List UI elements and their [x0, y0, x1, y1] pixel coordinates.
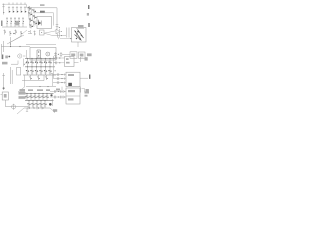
- ground GND1: [26, 108, 28, 111]
- wire top net: [27, 4, 58, 23]
- lamp DS1: [46, 52, 50, 56]
- label blob row2: [15, 21, 18, 26]
- wire vert x10: [10, 37, 11, 47]
- transistor Q34: [41, 93, 44, 101]
- wire bus row2 bottom: [2, 26, 27, 28]
- resistor R1: [6, 17, 8, 27]
- node n2: [8, 56, 10, 58]
- label net2: [40, 11, 45, 13]
- transistor Q35: [45, 93, 48, 101]
- label delta: [5, 56, 8, 59]
- transistor Q43: [39, 100, 42, 108]
- label 5R: [87, 53, 92, 56]
- capacitor C1: [56, 23, 60, 30]
- capacitor C4: [60, 52, 62, 57]
- transistor Q12: [35, 58, 38, 67]
- transistor Q11: [30, 58, 33, 67]
- capacitor C5: [2, 73, 5, 90]
- label O:: [20, 89, 26, 92]
- transistor Q40: [27, 100, 30, 108]
- label net1: [40, 4, 45, 6]
- transistor Q2: [32, 9, 36, 13]
- diode D12: [15, 30, 17, 35]
- box U6: [65, 57, 75, 67]
- box U2: [30, 48, 56, 61]
- lamp DS3: [12, 104, 16, 110]
- label 1 (right of J1): [88, 23, 89, 27]
- transistor Q7: [38, 20, 41, 26]
- transistor Q7: [29, 24, 33, 28]
- label 1 (right of U7): [89, 75, 90, 79]
- lamp DS2: [18, 54, 26, 58]
- wire bus B1: [25, 93, 54, 95]
- wire right of U6: [74, 62, 79, 64]
- transistor Q24: [44, 66, 47, 75]
- label 1 row2: [1, 21, 2, 27]
- resistor R4: [18, 17, 20, 27]
- label 1 (top right): [88, 5, 89, 9]
- diode D5: [20, 3, 22, 14]
- wire right of U7: [80, 77, 88, 79]
- diode D11: [9, 31, 11, 36]
- wire L to phi: [5, 100, 28, 107]
- wire y54: [62, 53, 70, 55]
- wire y80.5: [22, 75, 44, 81]
- blob in U7: [68, 83, 72, 86]
- wire left drop br: [51, 99, 53, 106]
- transistor Q25: [48, 66, 51, 75]
- diode D6: [24, 3, 26, 14]
- transistor Q33: [37, 93, 40, 101]
- wire horizontal y46: [1, 46, 30, 47]
- transistor Q30: [25, 93, 28, 101]
- transistor Q31: [29, 93, 32, 101]
- diode D20 arrow: [56, 29, 62, 34]
- node n3: [13, 33, 14, 34]
- label TD: [76, 25, 84, 28]
- node blob b2: [49, 103, 52, 106]
- resistor R5: [22, 17, 24, 27]
- wire bus B3: [24, 107, 50, 110]
- capacitor C7: [53, 61, 65, 64]
- wire pins into J1: [67, 28, 69, 38]
- transistor Q1: [28, 6, 32, 10]
- resistor R22: [45, 75, 48, 80]
- wire left drop: [18, 75, 25, 92]
- capacitor C12: [53, 81, 66, 84]
- diode D10: [4, 30, 6, 35]
- wire top rail: [3, 3, 27, 5]
- wire y38.6: [58, 37, 72, 39]
- label s: [87, 13, 89, 16]
- transistor Q10: [26, 58, 29, 67]
- box U3: [70, 52, 77, 59]
- box U4: [79, 52, 86, 58]
- resistor R12: [33, 31, 35, 36]
- wire y64 stub: [11, 61, 18, 65]
- capacitor C11: [53, 77, 66, 80]
- transistor Q14: [44, 58, 47, 67]
- transistor Q42: [35, 100, 38, 108]
- connector J1: [72, 28, 87, 43]
- label 1 (left): [2, 55, 3, 60]
- transistor Q15: [48, 58, 51, 67]
- label specks right b: [85, 92, 90, 97]
- label 1-5: [53, 109, 57, 112]
- wire below U7: [62, 87, 81, 93]
- label row specks: [28, 89, 50, 91]
- wire diagonal down-left: [7, 30, 27, 44]
- wire y35: [52, 35, 66, 37]
- label 17: [82, 89, 89, 93]
- label 2.1: [2, 62, 8, 65]
- diode D3: [12, 3, 14, 14]
- label -5 bracket: [80, 57, 87, 62]
- wire y86.5: [26, 86, 56, 87]
- wire tail br: [50, 108, 55, 112]
- wire cluster links: [28, 7, 34, 28]
- transistor Q6: [33, 21, 37, 25]
- wire vert x23: [24, 59, 27, 67]
- box U1: [37, 17, 52, 29]
- diode D1: [2, 4, 4, 15]
- box S1: [2, 92, 8, 100]
- transistor Q13: [39, 58, 42, 67]
- transistor Q41: [31, 100, 34, 108]
- wire stub x26: [26, 50, 28, 58]
- capacitor C6: [53, 57, 65, 60]
- transistor Q21: [30, 66, 33, 75]
- box U5: [17, 68, 21, 76]
- label 0.: [19, 92, 26, 95]
- transistor Q22: [35, 66, 38, 75]
- wire bus M1: [25, 58, 55, 60]
- capacitor C10: [53, 73, 66, 76]
- capacitor C3: [54, 52, 57, 57]
- transistor Q44: [43, 100, 46, 108]
- transistor Q3: [28, 12, 32, 16]
- relay K2: [37, 50, 41, 58]
- transistor Q5: [29, 18, 33, 22]
- transistor Q20: [26, 66, 29, 75]
- diode D13: [20, 31, 22, 36]
- node n1: [58, 54, 59, 55]
- resistor R11: [28, 30, 32, 34]
- wire bus M2: [25, 66, 55, 68]
- transistor Q32: [33, 93, 36, 101]
- wire diag bl: [17, 108, 24, 114]
- transistor Q4: [33, 15, 37, 19]
- capacitor C20: [50, 90, 66, 93]
- label 1.0: [19, 96, 26, 99]
- wire bus B2: [25, 100, 54, 102]
- node blob b1: [50, 94, 52, 96]
- wire y33 right: [44, 31, 56, 36]
- resistor R21: [37, 75, 40, 80]
- box U8: [66, 88, 80, 104]
- resistor R3: [14, 17, 16, 27]
- label specks below U7: [56, 89, 60, 91]
- wire tick S1: [1, 94, 3, 96]
- diode D2: [8, 3, 10, 14]
- capacitor C21: [50, 96, 66, 99]
- wire vert right col: [51, 56, 55, 78]
- wire vert x3: [3, 41, 5, 52]
- diode D4: [16, 3, 18, 14]
- wire bus M3: [23, 74, 56, 76]
- wire below J1: [77, 42, 79, 47]
- capacitor C2: [58, 33, 63, 37]
- box K1: [40, 30, 45, 35]
- resistor R2: [10, 17, 12, 27]
- wire vert left of U7: [52, 74, 54, 86]
- wire left edge: [0, 44, 2, 59]
- wire vert pair: [11, 67, 13, 84]
- wire stub: [34, 13, 54, 26]
- wire horizontal y44 upper: [26, 43, 56, 45]
- box U7: [66, 72, 80, 86]
- transistor Q23: [39, 66, 42, 75]
- resistor R20: [29, 75, 32, 80]
